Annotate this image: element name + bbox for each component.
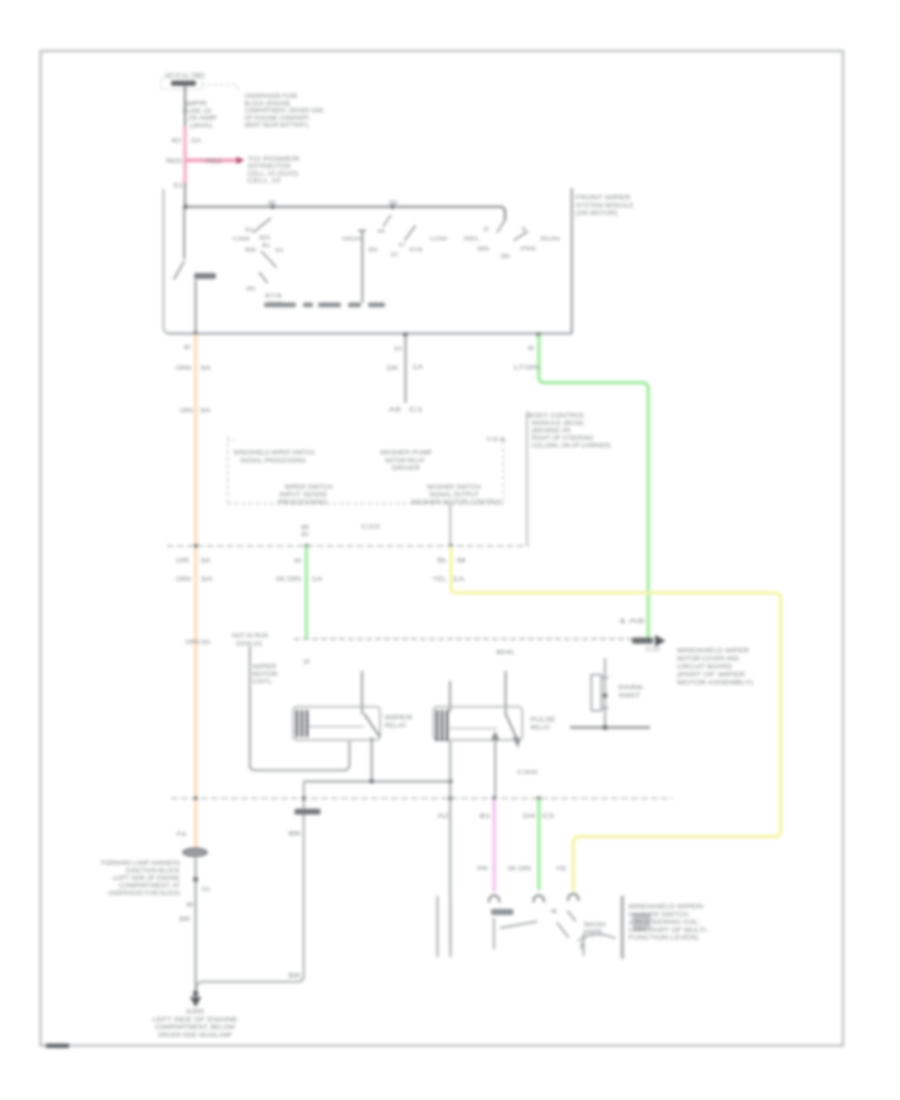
junction sep1 orange [194,544,198,548]
wire DK GRN lower [305,546,308,638]
svg-text:MOTOR ASSEMBLY): MOTOR ASSEMBLY) [677,681,753,687]
svg-text:40: 40 [171,139,182,145]
svg-text:FUNCTION LEVER): FUNCTION LEVER) [629,936,699,942]
svg-text:b: b [262,243,270,249]
fuse name label left [183,102,217,130]
relay contact cluster K3 [497,220,528,240]
switch housing bar [621,896,624,959]
arrow sense up [491,731,500,740]
svg-text:ORN: ORN [176,366,192,372]
svg-text:FORWARD LAMP HARNESS: FORWARD LAMP HARNESS [101,861,180,867]
arrow to relay board [655,635,666,647]
svg-text:UNDERHOOD FUSE: UNDERHOOD FUSE [245,94,298,100]
svg-text:B: B [528,346,534,352]
svg-text:B1: B1 [480,814,492,820]
svg-text:HIGH: HIGH [342,237,361,243]
svg-text:PK: PK [478,867,489,873]
splice label S204 [232,634,268,648]
wire ORN long vertical [194,334,197,848]
firewall separator lower [171,797,673,799]
svg-text:LOW: LOW [430,237,448,243]
splice S306 [193,877,198,882]
svg-text:SIGNAL OUTPUT: SIGNAL OUTPUT [429,493,479,499]
svg-text:ORN: ORN [176,577,191,583]
label ORN pair 1 [176,366,212,372]
svg-text:(BEHIND I/P,: (BEHIND I/P, [532,429,572,435]
svg-text:REL: REL [464,237,480,243]
svg-text:D: D [394,347,402,353]
coil feed T-bar [358,231,366,303]
svg-text:COMPARTMENT, AT: COMPARTMENT, AT [119,884,180,890]
svg-text:1A: 1A [412,365,423,371]
svg-text:DK: DK [387,366,399,372]
svg-text:PROCESSING: PROCESSING [278,500,327,506]
svg-text:OR: OR [176,559,190,565]
junction sep2 pink [492,796,496,800]
BCM text B [380,451,432,473]
svg-text:1A: 1A [312,577,323,583]
junction bus mid [270,205,274,209]
wire park to box bottom [195,280,197,334]
wiper switch contact b [557,923,569,938]
svg-text:MOTOR RELAY: MOTOR RELAY [385,458,425,464]
svg-text:PARK: PARK [619,686,644,692]
svg-text:MOTOR COVER AND: MOTOR COVER AND [677,657,740,663]
BCM dashed box right edge [502,441,504,504]
relay R2 arm arrow [513,737,521,749]
relay R1 outline [293,707,380,740]
branch destination label [248,157,301,185]
junction bar [602,725,607,730]
svg-text:25 AMP: 25 AMP [188,116,217,122]
svg-text:B: B [187,903,194,909]
svg-text:WINDSHIELD WIPER SWITCH: WINDSHIELD WIPER SWITCH [234,451,315,457]
svg-text:86: 86 [268,201,276,207]
svg-text:MENT NEAR BATTERY): MENT NEAR BATTERY) [245,123,309,129]
svg-text:3A: 3A [200,409,211,415]
relay contact cluster K2 [383,215,416,241]
svg-text:FRONT WIPER: FRONT WIPER [576,196,632,202]
svg-text:WASH: WASH [584,923,606,929]
switch assembly label [629,905,709,942]
svg-text:1: 1 [521,227,528,233]
label DK GRN [276,577,323,583]
junction box bottom right [536,332,541,337]
svg-text:LEFT SIDE OF ENGINE: LEFT SIDE OF ENGINE [153,1017,238,1023]
relay R1 coil [297,710,307,737]
junction bus left [183,204,188,209]
label below sep2 green pair [523,814,554,820]
svg-text:c: c [398,242,407,248]
wire LT GRN from box [539,335,648,641]
svg-text:COMPARTMENT, BELOW: COMPARTMENT, BELOW [155,1025,235,1031]
svg-text:CAM: CAM [233,237,250,243]
relay R2 switch arm [506,714,518,740]
svg-text:WIPER: WIPER [385,716,414,722]
ground junction [193,991,199,997]
svg-text:(LEFT SIDE OF ENGINE: (LEFT SIDE OF ENGINE [113,876,180,882]
wire stub into relay R2 switch [505,671,507,715]
junction sep1 green [305,544,309,548]
wiper module box left edge [164,189,171,334]
junction sep2 orange [194,796,198,800]
svg-text:6: 6 [301,532,309,538]
wire to module bus [184,183,186,207]
wire BCM to firewall [449,504,451,546]
svg-text:A8: A8 [389,408,402,414]
svg-text:WASHER SWITCH: WASHER SWITCH [427,485,481,491]
svg-text:(40A): (40A) [190,123,212,129]
svg-text:SWIT: SWIT [619,693,641,699]
label ORN pair 3 [186,640,211,646]
svg-text:B6: B6 [496,650,514,656]
svg-text:3A: 3A [201,640,210,646]
wiper module box right edge [571,188,573,334]
bus to pump feed [304,780,451,782]
svg-text:RIGHT OF STEERING: RIGHT OF STEERING [532,436,594,442]
svg-text:1A: 1A [453,577,465,583]
junction sep1 yellow [449,544,453,548]
module name label [576,196,634,218]
washer switch stem [493,918,495,950]
svg-text:PRK: PRK [521,247,537,253]
wiper module box bottom edge [168,333,572,335]
svg-text:WINDSHIELD WIPER: WINDSHIELD WIPER [677,649,750,655]
svg-text:WINDSHIELD WIPER/: WINDSHIELD WIPER/ [629,905,704,911]
fuse block dashed outline [161,78,202,90]
svg-text:MODULE (BCM): MODULE (BCM) [532,421,584,427]
junction sep2 green [537,796,541,800]
svg-text:2: 2 [303,660,311,666]
svg-text:E: E [184,345,193,351]
fuse F13 [171,81,196,86]
svg-text:86: 86 [478,247,490,253]
label LT GRN [514,366,540,372]
relay R1 contact line [309,726,364,728]
svg-text:COMPARTMENT, DRIVER SIDE: COMPARTMENT, DRIVER SIDE [245,109,324,115]
wire R2 coil to pump [449,741,451,946]
svg-text:A2: A2 [438,814,450,820]
label ORN pair 2 [180,409,211,415]
svg-text:(PART OF WIPER: (PART OF WIPER [677,673,746,679]
svg-text:86B: 86B [245,248,256,254]
svg-text:UNDERHOOD FUSE BLOCK): UNDERHOOD FUSE BLOCK) [108,891,180,897]
wire BLK below connector [195,858,197,994]
svg-text:RELAY: RELAY [385,724,407,730]
svg-text:OF ENGINE COMPART-: OF ENGINE COMPART- [245,116,311,122]
dashed leader to fuse block label [202,85,240,93]
board bus bar [570,726,650,729]
svg-text:6: 6 [294,559,302,565]
connector terminal yellow [568,894,578,901]
svg-text:3A: 3A [201,559,211,565]
svg-text:RELAY: RELAY [531,726,551,732]
connector end labels [389,408,425,414]
svg-text:WPR: WPR [185,102,208,108]
svg-text:(ON MOTOR): (ON MOTOR) [576,211,618,217]
ground label G305 [153,1010,238,1039]
washer switch lever [500,922,537,929]
svg-text:BK: BK [180,917,191,923]
wire ground return long [196,781,303,993]
wire fuse output [184,86,186,128]
svg-text:CIRCUIT BOARD: CIRCUIT BOARD [677,665,733,671]
leader line to compartment label [526,412,528,546]
svg-text:FUSE 23: FUSE 23 [183,109,212,115]
arrow to S102 [237,157,245,165]
washer pump motor coil [436,896,438,957]
svg-text:BK: BK [289,974,302,980]
svg-text:YEL: YEL [433,577,448,583]
BCM dashed box top corner ticks [228,439,504,441]
junction pump bus 1 [369,779,374,784]
svg-text:MOTOR: MOTOR [253,672,279,678]
svg-text:4: 4 [550,909,557,915]
label low pair [387,365,423,372]
svg-text:ORN: ORN [186,640,200,646]
resistor edge ticks [601,678,608,709]
page number label bottom-left [46,1044,69,1049]
label ORN sep pair [176,559,213,584]
resistor label [619,686,644,700]
svg-text:RUN: RUN [541,237,560,243]
relay R2 label [531,718,556,732]
junction bus right [390,205,394,209]
inline connector C100 [183,848,207,856]
svg-text:LT: LT [514,366,525,372]
svg-text:C3: C3 [543,814,555,820]
svg-text:87A: 87A [265,294,282,300]
svg-text:85: 85 [247,287,256,293]
svg-text:WIPER: WIPER [253,665,278,671]
component board resistor [591,675,601,711]
wire YEL upper [451,546,781,892]
wire RED vertical [183,126,186,184]
label yellow pins [433,559,468,584]
svg-text:YE: YE [556,867,567,873]
svg-text:5: 5 [437,559,448,565]
svg-text:3A: 3A [201,577,213,583]
svg-text:C305: C305 [517,770,538,776]
svg-text:GA: GA [191,139,201,145]
svg-text:C2 A: C2 A [487,437,506,443]
wire bus to park switch [183,207,185,259]
svg-text:3A: 3A [200,366,211,372]
BCM dashed box left edge [227,436,229,504]
washer switch label [491,909,514,915]
svg-text:62: 62 [245,228,253,234]
park switch arm [174,261,185,280]
switch detent arc [578,934,615,940]
svg-text:DK GRN: DK GRN [508,867,531,873]
svg-text:BLOCK (ENGINE: BLOCK (ENGINE [245,101,291,107]
svg-text:85: 85 [501,254,510,260]
wire R1 coil return L [250,646,350,770]
BCM dashed box bottom edge [228,503,504,505]
wire DK GRN below sep2 [537,799,540,890]
relay R1 switch arm [364,714,380,737]
svg-text:BODY CONTROL: BODY CONTROL [528,414,586,420]
svg-text:C12: C12 [646,647,660,653]
svg-text:30: 30 [368,248,378,254]
svg-text:91: 91 [275,248,284,254]
wire PNK below sep2 [493,799,496,892]
svg-text:WASHER PUMP: WASHER PUMP [380,451,432,457]
junction pump bus 2 [448,779,453,784]
svg-text:G305: G305 [186,1010,205,1016]
arrow label on dashed wire [632,638,653,644]
bus B+ inside module [183,207,505,221]
svg-text:A9: A9 [629,619,645,625]
svg-text:D4: D4 [523,814,536,820]
wiper switch stem right [583,933,585,956]
ground arrow [191,994,200,1006]
svg-text:87A: 87A [410,248,423,254]
splice blob below sep2 [295,809,321,815]
relay R2 contact line [449,728,497,730]
wiper switch contact a [568,911,576,922]
svg-text:9: 9 [457,559,468,565]
svg-text:CELL 10 (S102): CELL 10 (S102) [248,171,299,177]
svg-text:C1: C1 [409,408,424,414]
relay R2 coil [437,710,447,741]
internal pin row labels [264,303,385,308]
BCM text C [278,485,333,506]
svg-text:DRIVER: DRIVER [392,466,421,472]
relay R1 label [385,716,414,730]
svg-text:CNTL: CNTL [253,680,274,686]
svg-text:TO POWER: TO POWER [248,157,301,163]
park contact label [194,273,216,279]
BCM text D [411,485,504,506]
svg-text:WIPER SWITCH: WIPER SWITCH [285,485,333,491]
left harness label [101,861,180,897]
svg-text:JUNCTION BLOCK: JUNCTION BLOCK [125,869,180,875]
svg-text:DISTRIBUTION: DISTRIBUTION [248,164,291,170]
svg-text:85: 85 [389,201,398,207]
svg-text:GRN: GRN [525,366,540,372]
svg-text:SIGNAL PROCESSING: SIGNAL PROCESSING [240,458,306,464]
svg-text:PULSE: PULSE [531,718,556,724]
svg-text:ORN: ORN [180,409,193,415]
BCM text A [234,451,315,465]
svg-text:SYSTEM MODULE: SYSTEM MODULE [576,203,634,209]
svg-text:1: 1 [618,619,629,625]
svg-text:a: a [377,229,387,235]
svg-text:F4: F4 [177,832,187,838]
connector terminal green [534,895,544,902]
svg-text:CELL 10: CELL 10 [248,179,282,185]
firewall separator upper [167,545,529,547]
svg-text:30: 30 [258,236,270,242]
wire stub into relay R1 [361,671,363,714]
wire RED branch horizontal [186,159,238,163]
fuse block label [245,94,324,129]
wire stub into relay R2 coil [449,681,451,712]
junction resistor [603,693,608,698]
svg-text:S3: S3 [202,887,210,893]
relay R2 outline [433,707,522,740]
svg-text:INPUT SENSE: INPUT SENSE [279,493,327,499]
svg-text:BK: BK [289,832,302,838]
wire through resistor [604,658,606,727]
compartment label [528,414,611,450]
svg-text:2: 2 [483,227,489,233]
svg-text:HOT IN RUN: HOT IN RUN [232,634,268,640]
svg-text:C22: C22 [361,525,380,531]
connector terminal pink [489,895,499,902]
wire R2 wiper sense [494,735,496,799]
svg-text:RED: RED [205,159,223,165]
dashed wire to fan arrow [294,638,633,640]
switch label dark block [633,913,651,931]
wire low speed vertical [405,335,407,403]
svg-text:WASHER MOTOR CONTROL: WASHER MOTOR CONTROL [411,500,504,506]
switch stem lower [581,942,583,949]
svg-text:87: 87 [391,253,399,259]
svg-text:DK GRN: DK GRN [276,577,301,583]
svg-text:S1: S1 [173,184,184,190]
coil return label [253,665,279,686]
relay contact cluster K1 [253,218,277,283]
junction box bottom mid [403,332,408,337]
switch mode label [584,923,606,937]
svg-text:RED: RED [166,159,183,165]
svg-text:COLUMN, ON I/P CARRIER): COLUMN, ON I/P CARRIER) [532,444,611,450]
label 1A near green right [618,619,645,625]
junction sep2 gray [448,796,452,800]
wire R1 switch output [371,737,373,781]
junction sep2 black [302,796,306,800]
svg-text:DRIVER SIDE HEADLAMP: DRIVER SIDE HEADLAMP [158,1033,232,1039]
relay board label right [677,649,753,687]
svg-text:8: 8 [301,525,309,531]
junction box bottom left [193,331,197,335]
